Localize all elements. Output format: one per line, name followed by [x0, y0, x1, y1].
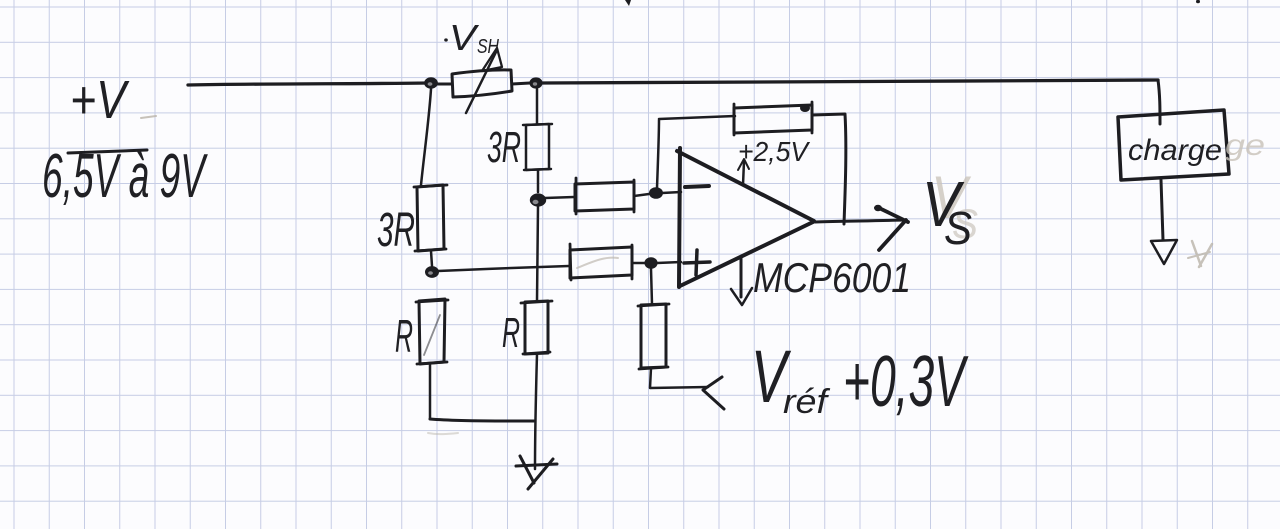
pin minus sign	[685, 186, 709, 187]
svg-text:ge: ge	[1225, 129, 1265, 162]
wire plus node down	[651, 269, 652, 304]
wire feedback up	[657, 120, 659, 188]
svg-text:R: R	[502, 309, 520, 356]
resistor R left	[416, 300, 448, 364]
op-amp U1 triangle	[679, 148, 680, 287]
wire top rail left segment	[188, 83, 428, 85]
wire node B to plus resistor	[438, 266, 569, 271]
overbar above 6,5	[68, 150, 147, 153]
wire bottom connecting	[430, 419, 534, 421]
wire node C down to R center	[537, 206, 538, 301]
wire node C to minus input resistor	[545, 197, 574, 198]
svg-text:3R: 3R	[487, 123, 521, 172]
pencil ghost strokes	[141, 116, 1212, 434]
wire stub to inverting node	[634, 194, 649, 196]
resistor VSH (shunt)	[452, 70, 512, 97]
wire stub to plus node	[632, 262, 645, 265]
resistor R center	[521, 301, 552, 354]
wire feedback right	[812, 114, 846, 224]
pin V+ supply arrow	[743, 161, 744, 185]
wire to Vref arrow	[650, 368, 708, 388]
wire R center to ground	[535, 354, 537, 469]
arrow output head	[877, 207, 908, 250]
wire drop to charge box	[1158, 80, 1160, 124]
arrow Vref head	[703, 377, 724, 409]
resistor 3R center	[523, 124, 552, 170]
resistor 3R left	[414, 185, 447, 251]
svg-text:S: S	[944, 202, 972, 254]
node plus input	[644, 257, 657, 269]
wire center branch from rail	[536, 89, 539, 124]
VSH variable arrow	[466, 50, 497, 113]
node feedback blob	[800, 104, 810, 112]
wire below R left	[429, 364, 432, 418]
wire feedback top	[659, 116, 735, 119]
svg-text:+V: +V	[70, 70, 130, 130]
svg-text:réf: réf	[783, 383, 831, 421]
wire stub to shunt	[436, 83, 452, 86]
wire stub below 3R center	[537, 170, 540, 192]
wire stub below 3R left	[431, 251, 432, 266]
resistor plus input	[570, 244, 632, 280]
wire output	[815, 220, 903, 222]
resistor feedback	[734, 102, 812, 135]
wire stub shunt to right junction	[512, 83, 530, 84]
svg-text:MCP6001: MCP6001	[753, 254, 911, 301]
charge box	[1118, 110, 1229, 180]
stray ink dot before VSH	[444, 38, 448, 41]
node junction left of shunt	[424, 77, 438, 88]
wire to op-amp plus	[657, 262, 681, 263]
resistor minus input	[576, 178, 634, 214]
svg-text:3R: 3R	[377, 204, 415, 257]
node junction right of shunt	[529, 77, 542, 88]
svg-text:6,5V à 9V: 6,5V à 9V	[42, 142, 208, 211]
wire left branch from rail	[421, 89, 431, 185]
node C junction	[530, 193, 546, 206]
wire charge to ground	[1161, 180, 1163, 240]
ground charge triangle	[1151, 240, 1177, 264]
wire to op-amp minus	[662, 192, 681, 193]
node B junction	[425, 266, 439, 278]
svg-text:charge: charge	[1128, 134, 1222, 167]
svg-text:SH: SH	[477, 36, 499, 58]
svg-text:R: R	[395, 310, 413, 362]
stray mark top center	[625, 0, 631, 6]
node inverting input	[649, 187, 663, 199]
svg-text:+2,5V: +2,5V	[738, 136, 810, 167]
pin V- ground arrow	[740, 257, 743, 297]
stray mark top right	[1196, 0, 1200, 3]
ground	[516, 464, 557, 466]
pin plus sign	[684, 250, 710, 275]
wire top rail right segment	[542, 80, 1158, 83]
svg-text:V: V	[449, 17, 479, 58]
svg-text:+0,3V: +0,3V	[843, 342, 969, 422]
resistor Vref branch	[638, 304, 669, 369]
